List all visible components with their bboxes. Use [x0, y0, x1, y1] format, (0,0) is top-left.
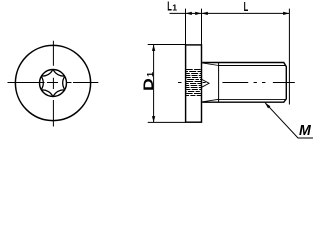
hexalobular recess valley arcs	[41, 70, 64, 97]
svg-text:L: L	[244, 0, 249, 14]
label D1 (rotated)	[140, 72, 156, 91]
svg-text:D: D	[140, 78, 156, 91]
horizontal centerline (front view)	[8, 82, 99, 84]
threaded shank outline with tip chamfer	[202, 63, 286, 103]
M leader line	[265, 103, 313, 138]
screw head outer circle (front view)	[15, 45, 90, 120]
screw head rectangle (side view)	[186, 45, 202, 122]
svg-text:1: 1	[172, 3, 177, 13]
shaft centerline (side view)	[178, 82, 295, 84]
L1 right arrow	[195, 12, 201, 15]
socket hidden dashed lines inside head	[186, 70, 201, 96]
top dimension line for L1 and L	[170, 12, 290, 14]
L1 left arrow	[186, 12, 192, 15]
svg-text:1: 1	[145, 72, 155, 77]
thread runout vertical line	[218, 63, 220, 103]
vertical centerline (front view)	[52, 41, 54, 127]
thread minor diameter lines	[219, 66, 286, 100]
svg-text:L: L	[167, 0, 172, 14]
M leader arrow	[265, 103, 271, 109]
extension lines for L1 and L	[186, 9, 290, 105]
thread runout diagonals	[202, 63, 219, 102]
socket bottom cone	[202, 79, 209, 87]
D1 dimension line	[153, 45, 155, 122]
L right arrow	[283, 12, 289, 15]
D1 top arrow	[152, 45, 155, 51]
svg-text:M: M	[299, 122, 311, 139]
L left arrow	[202, 12, 208, 15]
hexalobular socket circle	[40, 70, 67, 97]
label L1	[167, 0, 177, 14]
D1 extension lines	[148, 45, 186, 123]
D1 bottom arrow	[152, 116, 155, 122]
